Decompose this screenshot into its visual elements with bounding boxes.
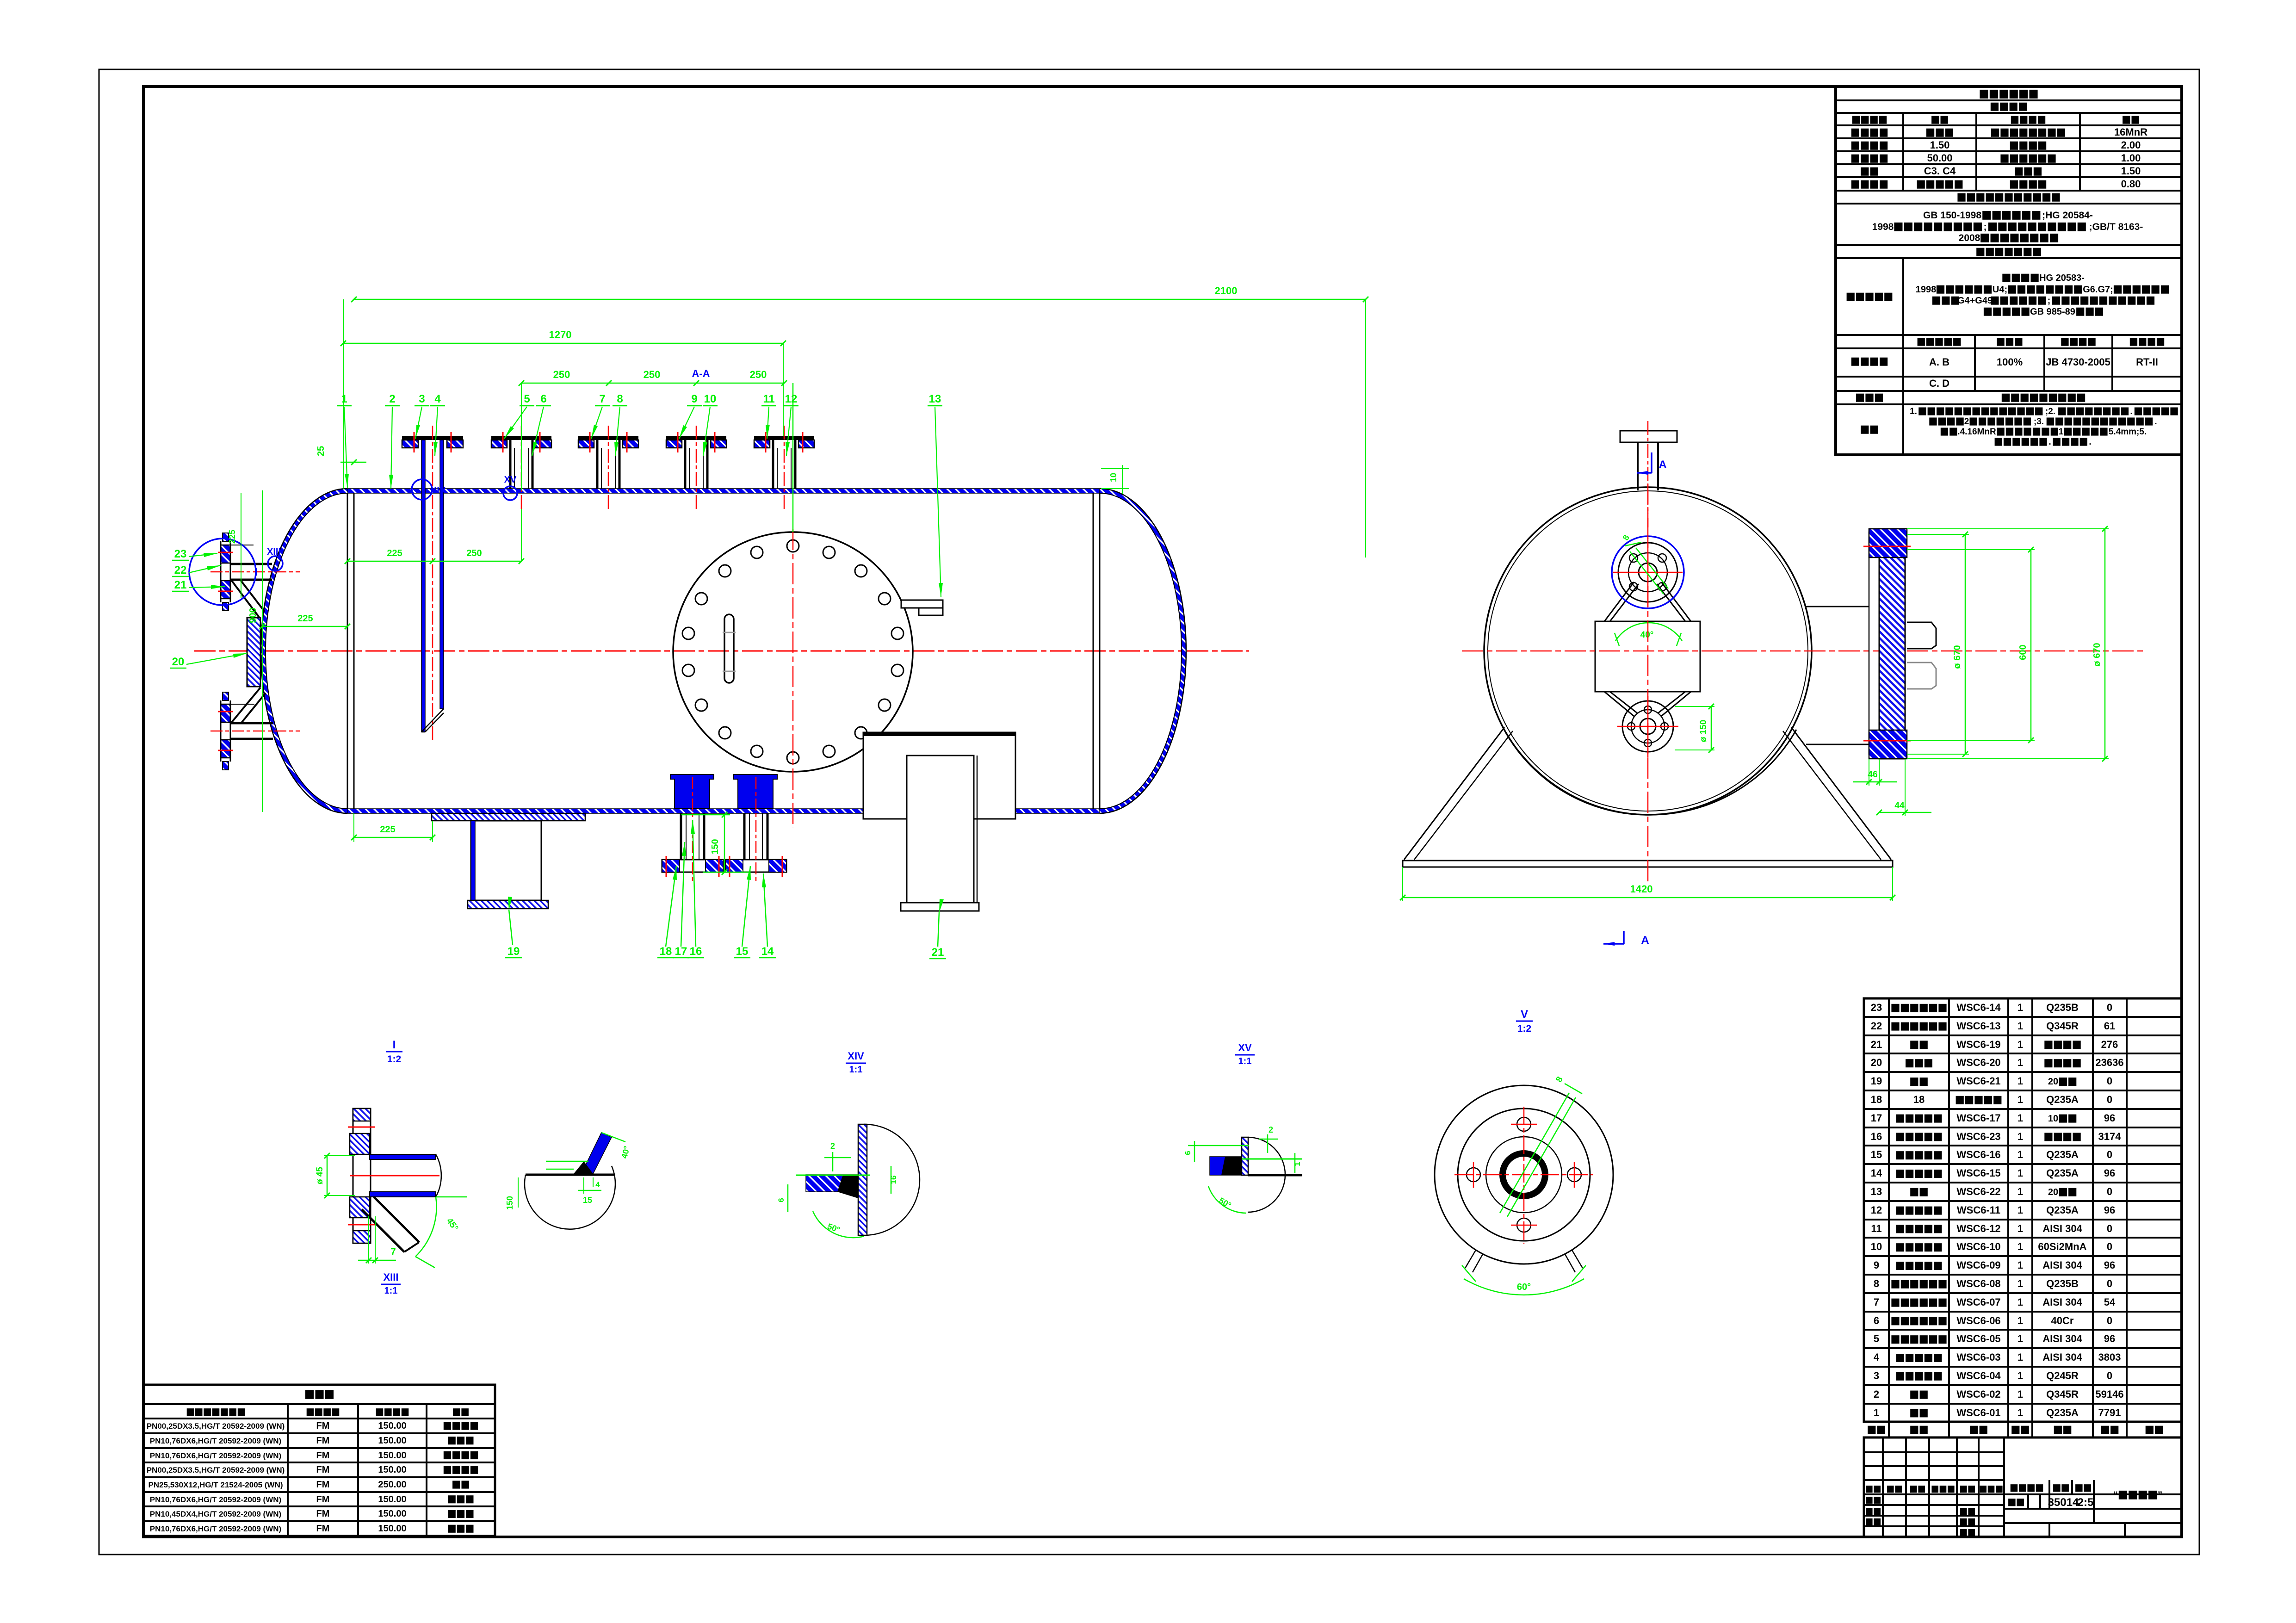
svg-text:0: 0 bbox=[2107, 1149, 2112, 1160]
lower gusset bbox=[231, 688, 260, 723]
svg-text:.: . bbox=[2048, 437, 2051, 447]
svg-text:150.00: 150.00 bbox=[378, 1436, 406, 1446]
bottom flange bbox=[725, 860, 786, 872]
gasket lines bbox=[414, 432, 415, 452]
svg-text:1: 1 bbox=[2018, 1315, 2023, 1326]
right support leg bbox=[907, 756, 974, 903]
svg-text:1: 1 bbox=[2018, 1112, 2023, 1124]
manhole cover gasket bbox=[1869, 532, 1879, 754]
cover bottom block bbox=[1869, 730, 1907, 759]
dim 150 between bottom nozzles bbox=[724, 815, 725, 872]
head nozzle at y=1580 flange plate bbox=[221, 704, 230, 722]
svg-text:2:5: 2:5 bbox=[2078, 1496, 2094, 1509]
svg-text:22: 22 bbox=[1871, 1020, 1882, 1032]
svg-text:PN10,76DX6,HG/T 20592-2009 (WN: PN10,76DX6,HG/T 20592-2009 (WN) bbox=[150, 1437, 281, 1445]
svg-text:WSC6-19: WSC6-19 bbox=[1956, 1039, 2000, 1050]
svg-text:I: I bbox=[393, 1039, 396, 1051]
head nozzle gasket marks bbox=[218, 711, 233, 712]
label 19 leader bbox=[509, 910, 513, 945]
svg-text:0: 0 bbox=[2107, 1186, 2112, 1197]
head nozzle gasket marks bbox=[218, 552, 233, 553]
svg-text:WSC6-01: WSC6-01 bbox=[1956, 1407, 2000, 1419]
svg-text:19: 19 bbox=[507, 945, 520, 958]
svg-text:2: 2 bbox=[1269, 1125, 1273, 1134]
svg-text:.: . bbox=[2089, 437, 2091, 447]
svg-text:FM: FM bbox=[316, 1480, 330, 1490]
head nozzle centerline bbox=[210, 731, 300, 732]
svg-text:14: 14 bbox=[761, 945, 774, 958]
svg-text:150.00: 150.00 bbox=[378, 1509, 406, 1519]
svg-text:HG 20583-: HG 20583- bbox=[2039, 273, 2085, 283]
standards section title bbox=[1957, 193, 2060, 202]
weld detail XV bbox=[1248, 1137, 1285, 1212]
dim 2100 bbox=[354, 299, 1366, 300]
detail XIII gusset bbox=[374, 1197, 419, 1242]
svg-text:7: 7 bbox=[1874, 1296, 1879, 1308]
head nozzle centerline bbox=[210, 571, 300, 573]
svg-text:WSC6-12: WSC6-12 bbox=[1956, 1223, 2000, 1234]
dim 225/250 inside vessel bbox=[347, 561, 521, 562]
svg-text:23636: 23636 bbox=[2095, 1057, 2123, 1068]
svg-text:FM: FM bbox=[316, 1524, 330, 1534]
svg-text:150.00: 150.00 bbox=[378, 1465, 406, 1475]
svg-text:1: 1 bbox=[2018, 1407, 2023, 1419]
svg-text:1.50: 1.50 bbox=[1930, 139, 1950, 151]
svg-text:;HG 20584-: ;HG 20584- bbox=[2042, 210, 2093, 221]
svg-text:12: 12 bbox=[785, 393, 798, 405]
svg-text:“: “ bbox=[2113, 1490, 2118, 1500]
design table data rows bbox=[1851, 129, 1888, 137]
standards text block bbox=[1923, 210, 2093, 221]
svg-text:18: 18 bbox=[660, 945, 672, 958]
svg-text:RT-II: RT-II bbox=[2136, 356, 2158, 368]
left leg bbox=[471, 821, 541, 900]
nozzle centerline bbox=[521, 426, 522, 509]
manhole cover circle bbox=[673, 532, 913, 772]
svg-text:WSC6-08: WSC6-08 bbox=[1956, 1278, 2000, 1289]
bottom flange red cross bbox=[1617, 726, 1678, 727]
BOM header row bbox=[1864, 1421, 2182, 1423]
end view centerlines bbox=[1462, 650, 2147, 652]
svg-text:WSC6-05: WSC6-05 bbox=[1956, 1333, 2000, 1344]
left small dim 225 bbox=[241, 493, 241, 598]
svg-text:1: 1 bbox=[2018, 1020, 2023, 1032]
dim 250 x3 bbox=[521, 383, 784, 384]
svg-text:15: 15 bbox=[583, 1196, 592, 1205]
svg-text:A: A bbox=[1641, 934, 1649, 947]
XIV weld wedge bbox=[806, 1175, 858, 1192]
svg-text:V: V bbox=[1521, 1008, 1528, 1021]
svg-text:1: 1 bbox=[2018, 1057, 2023, 1068]
svg-text:21: 21 bbox=[1871, 1039, 1882, 1050]
svg-text:3: 3 bbox=[1874, 1370, 1879, 1381]
section arrow A bottom bbox=[1623, 931, 1625, 944]
svg-text:WSC6-06: WSC6-06 bbox=[1956, 1315, 2000, 1326]
bottom nozzle at x=1634 bbox=[743, 813, 746, 860]
svg-text:U4;: U4; bbox=[1993, 285, 2007, 295]
svg-text:21: 21 bbox=[932, 946, 944, 959]
svg-text:1:1: 1:1 bbox=[849, 1065, 863, 1075]
svg-text:96: 96 bbox=[2104, 1204, 2115, 1216]
svg-text:1.50: 1.50 bbox=[2121, 165, 2141, 177]
svg-text:WSC6-10: WSC6-10 bbox=[1956, 1241, 2000, 1252]
heat treatment row bbox=[1856, 394, 1883, 402]
nozzle centerline bbox=[696, 426, 697, 509]
svg-text:Q245R: Q245R bbox=[2046, 1370, 2079, 1381]
dim phi670 inner bbox=[1965, 534, 1966, 754]
svg-text:C. D: C. D bbox=[1929, 378, 1949, 389]
svg-text:11: 11 bbox=[763, 393, 774, 405]
svg-text:16MnR: 16MnR bbox=[2114, 126, 2147, 138]
head nozzle pipe bbox=[230, 563, 272, 565]
svg-text:Q235A: Q235A bbox=[2046, 1204, 2079, 1216]
dim 1270 bbox=[343, 343, 783, 344]
left leg reinforcement pad bbox=[432, 813, 585, 821]
svg-text:FM: FM bbox=[316, 1494, 330, 1505]
svg-text:150.00: 150.00 bbox=[378, 1421, 406, 1431]
end view internal box bbox=[1595, 621, 1700, 692]
design table title row bbox=[1980, 90, 2037, 99]
svg-text:17: 17 bbox=[1871, 1112, 1882, 1124]
nozzle schedule table bbox=[144, 1385, 495, 1536]
svg-text:1: 1 bbox=[2018, 1039, 2023, 1050]
svg-text:;: ; bbox=[1984, 222, 1987, 232]
dim phi150 bottom flange bbox=[1711, 706, 1712, 750]
svg-text:1: 1 bbox=[2059, 427, 2064, 437]
svg-text:C3. C4: C3. C4 bbox=[1924, 165, 1956, 177]
end view saddle seat arc bbox=[1503, 728, 1796, 815]
svg-text:21: 21 bbox=[174, 579, 187, 591]
svg-text:GB 985-89: GB 985-89 bbox=[2030, 307, 2075, 317]
svg-text:Q235A: Q235A bbox=[2046, 1149, 2079, 1160]
svg-text:150.00: 150.00 bbox=[378, 1450, 406, 1461]
svg-text:ø 670: ø 670 bbox=[1952, 645, 1962, 669]
detail V green slash bbox=[1500, 1093, 1569, 1213]
saddle left slant bbox=[1404, 727, 1504, 860]
svg-text:7: 7 bbox=[390, 1247, 396, 1257]
dim 46 bbox=[1853, 781, 1897, 783]
struts to top flange bbox=[1604, 582, 1634, 621]
svg-text:60°: 60° bbox=[1517, 1282, 1531, 1292]
level gauge slot bbox=[724, 614, 734, 683]
svg-text:3: 3 bbox=[419, 393, 425, 405]
svg-text:FM: FM bbox=[316, 1421, 330, 1431]
svg-text:WSC6-14: WSC6-14 bbox=[1956, 1002, 2001, 1013]
svg-text:2: 2 bbox=[1964, 417, 1969, 427]
item leader lines bbox=[344, 407, 347, 488]
svg-text:2: 2 bbox=[830, 1141, 835, 1151]
weld joint type row bbox=[1847, 293, 1893, 301]
manhole section extension line bbox=[792, 383, 794, 532]
svg-text:WSC6-03: WSC6-03 bbox=[1956, 1351, 2000, 1363]
svg-text:PN10,76DX6,HG/T 20592-2009 (WN: PN10,76DX6,HG/T 20592-2009 (WN) bbox=[150, 1524, 281, 1533]
svg-text:1: 1 bbox=[341, 393, 347, 405]
svg-text:1: 1 bbox=[2018, 1204, 2023, 1216]
svg-text:XIII: XIII bbox=[383, 1271, 398, 1283]
svg-text:150.00: 150.00 bbox=[378, 1524, 406, 1534]
left tangent weld seam lines bbox=[347, 493, 348, 809]
svg-text:WSC6-02: WSC6-02 bbox=[1956, 1388, 2000, 1400]
right tangent weld seam lines bbox=[1099, 493, 1101, 809]
bottom nozzle at x=1497 bbox=[680, 813, 682, 860]
title block left labels bbox=[1866, 1486, 1881, 1493]
svg-text:0: 0 bbox=[2107, 1075, 2112, 1087]
svg-text:”: ” bbox=[2158, 1490, 2163, 1500]
svg-text:AISI 304: AISI 304 bbox=[2042, 1351, 2082, 1363]
right elliptical head bbox=[1100, 489, 1186, 813]
left elliptical head bbox=[261, 489, 347, 813]
svg-text:8: 8 bbox=[1874, 1278, 1879, 1289]
svg-text:.: . bbox=[2154, 417, 2157, 427]
nozzle pipe walls bbox=[596, 440, 599, 489]
svg-text:15: 15 bbox=[1871, 1149, 1882, 1160]
svg-text:0: 0 bbox=[2107, 1370, 2112, 1381]
svg-text:1: 1 bbox=[2018, 1388, 2023, 1400]
svg-text:40°: 40° bbox=[1640, 630, 1654, 640]
svg-text:I: I bbox=[255, 566, 258, 578]
svg-text:96: 96 bbox=[2104, 1112, 2115, 1124]
svg-text:1: 1 bbox=[2018, 1333, 2023, 1344]
svg-text:WSC6-09: WSC6-09 bbox=[1956, 1259, 2000, 1271]
svg-text:Q235A: Q235A bbox=[2046, 1167, 2079, 1179]
svg-text:1: 1 bbox=[2018, 1370, 2023, 1381]
svg-text:3174: 3174 bbox=[2098, 1131, 2122, 1142]
svg-text:1.00: 1.00 bbox=[2121, 152, 2141, 164]
manhole vertical centerline bbox=[792, 529, 794, 828]
svg-text:1:1: 1:1 bbox=[1238, 1056, 1252, 1066]
BOM parts list table bbox=[1864, 998, 2182, 1422]
svg-text:23: 23 bbox=[174, 548, 187, 560]
svg-text:;GB/T 8163-: ;GB/T 8163- bbox=[2089, 222, 2143, 232]
section arrow A top bbox=[1651, 452, 1652, 473]
detail circle XV bbox=[503, 486, 517, 500]
svg-text:WSC6-15: WSC6-15 bbox=[1956, 1167, 2000, 1179]
bottom nozzle centerline bbox=[755, 777, 757, 881]
svg-text:1270: 1270 bbox=[549, 329, 572, 341]
svg-text:10: 10 bbox=[1871, 1241, 1882, 1252]
dim 1420 bbox=[1403, 897, 1893, 898]
nozzle pipe walls bbox=[509, 440, 512, 489]
svg-text:2.00: 2.00 bbox=[2121, 139, 2141, 151]
detail XIII dims bbox=[327, 1156, 328, 1196]
svg-text:16: 16 bbox=[1871, 1131, 1882, 1142]
svg-text:20: 20 bbox=[2048, 1187, 2058, 1197]
dim phi670 outer bbox=[2104, 529, 2106, 759]
svg-text:20: 20 bbox=[2048, 1077, 2058, 1087]
svg-text:900: 900 bbox=[248, 607, 258, 623]
svg-text:ø 45: ø 45 bbox=[315, 1167, 325, 1184]
svg-text:;3.: ;3. bbox=[2034, 417, 2044, 427]
svg-text:FM: FM bbox=[316, 1450, 330, 1461]
svg-text:23: 23 bbox=[1871, 1002, 1882, 1013]
svg-text:13: 13 bbox=[1871, 1186, 1882, 1197]
cover red gasket marks bbox=[1863, 546, 1911, 547]
svg-text:20: 20 bbox=[1871, 1057, 1882, 1068]
svg-text:FM: FM bbox=[316, 1436, 330, 1446]
gasket lines bbox=[502, 432, 504, 452]
manhole bolt holes bbox=[787, 540, 799, 552]
dip tube bevel end bbox=[421, 709, 444, 732]
cover top block bbox=[1869, 529, 1907, 558]
svg-text:18: 18 bbox=[1871, 1094, 1882, 1105]
nozzle centerline bbox=[432, 426, 433, 740]
detail XIII flange plate bbox=[353, 1109, 371, 1243]
title block bbox=[1864, 1437, 2182, 1537]
svg-text:276: 276 bbox=[2101, 1039, 2118, 1050]
svg-text:A. B: A. B bbox=[1929, 356, 1949, 368]
svg-text:250.00: 250.00 bbox=[378, 1480, 406, 1490]
manhole cover plate bbox=[1879, 529, 1905, 759]
svg-text:50.00: 50.00 bbox=[1927, 152, 1952, 164]
detail V leg stubs bbox=[1465, 1250, 1476, 1268]
svg-text:WSC6-04: WSC6-04 bbox=[1956, 1370, 2001, 1381]
design table header bbox=[1852, 116, 1887, 124]
dim 225 bottom bbox=[354, 837, 433, 838]
svg-text:WSC6-23: WSC6-23 bbox=[1956, 1131, 2000, 1142]
vessel shell bottom wall right segment bbox=[1015, 809, 1100, 813]
svg-text:5: 5 bbox=[524, 393, 530, 405]
svg-text:16: 16 bbox=[690, 945, 702, 958]
svg-text:150: 150 bbox=[710, 839, 720, 854]
svg-text:XV: XV bbox=[1238, 1042, 1252, 1053]
svg-text:Q235A: Q235A bbox=[2046, 1407, 2079, 1419]
svg-text:16: 16 bbox=[889, 1176, 898, 1184]
svg-text:5.4mm;5.: 5.4mm;5. bbox=[2109, 427, 2147, 437]
svg-text:44: 44 bbox=[1894, 801, 1905, 811]
detail circle blue top flange bbox=[1612, 536, 1684, 608]
nozzle pipe walls bbox=[684, 440, 687, 489]
svg-text:250: 250 bbox=[466, 548, 482, 558]
svg-text:1: 1 bbox=[2018, 1351, 2023, 1363]
svg-text:22: 22 bbox=[174, 564, 187, 576]
svg-text:1.: 1. bbox=[1910, 407, 1917, 416]
svg-text:WSC6-07: WSC6-07 bbox=[1956, 1296, 2000, 1308]
svg-text:ø 150: ø 150 bbox=[1699, 720, 1708, 743]
bottom nozzle centerline bbox=[692, 777, 693, 881]
svg-text:9: 9 bbox=[691, 393, 697, 405]
svg-text:225: 225 bbox=[387, 548, 402, 558]
detail XIII pipe bbox=[370, 1154, 436, 1159]
other requirements row bbox=[1861, 426, 1878, 434]
detail V flange face bbox=[1435, 1085, 1613, 1264]
nozzle centerline bbox=[608, 426, 609, 509]
svg-text:9: 9 bbox=[1874, 1259, 1879, 1271]
head nozzle pipe bbox=[230, 722, 273, 725]
XIV dims bbox=[832, 1152, 834, 1171]
svg-text:59146: 59146 bbox=[2095, 1388, 2123, 1400]
svg-text:1: 1 bbox=[2018, 1186, 2023, 1197]
svg-text:1: 1 bbox=[2018, 1094, 2023, 1105]
svg-text:PN10,76DX6,HG/T 20592-2009 (WN: PN10,76DX6,HG/T 20592-2009 (WN) bbox=[150, 1451, 281, 1460]
svg-text:0: 0 bbox=[2107, 1278, 2112, 1289]
dip tube walls bbox=[421, 440, 425, 732]
svg-text:225: 225 bbox=[228, 530, 237, 544]
svg-text:1998: 1998 bbox=[1916, 285, 1937, 295]
svg-text:WSC6-11: WSC6-11 bbox=[1957, 1204, 2000, 1216]
top flange red cross bbox=[1613, 572, 1683, 573]
svg-text:WSC6-17: WSC6-17 bbox=[1956, 1112, 2000, 1124]
svg-text:6: 6 bbox=[777, 1198, 786, 1202]
svg-text:1: 1 bbox=[2018, 1278, 2023, 1289]
svg-text:6: 6 bbox=[1874, 1315, 1879, 1326]
svg-text:PN10,76DX6,HG/T 20592-2009 (WN: PN10,76DX6,HG/T 20592-2009 (WN) bbox=[150, 1495, 281, 1504]
svg-text:4: 4 bbox=[434, 393, 441, 405]
upper gusset bbox=[231, 580, 259, 617]
svg-text:10: 10 bbox=[704, 393, 717, 405]
svg-text:FM: FM bbox=[316, 1509, 330, 1519]
dim 225 head depth bbox=[262, 626, 347, 627]
svg-text:Q235B: Q235B bbox=[2046, 1278, 2079, 1289]
svg-text:5: 5 bbox=[1874, 1333, 1879, 1344]
svg-text:96: 96 bbox=[2104, 1167, 2115, 1179]
svg-text:WSC6-13: WSC6-13 bbox=[1956, 1020, 2000, 1032]
gasket lines bbox=[589, 432, 591, 452]
green leader on top flange bbox=[1630, 551, 1664, 594]
svg-text:WSC6-22: WSC6-22 bbox=[1956, 1186, 2000, 1197]
dim 44 bbox=[1879, 812, 1931, 813]
svg-text:2100: 2100 bbox=[1215, 285, 1238, 297]
svg-text:.4.16MnR: .4.16MnR bbox=[1957, 427, 1996, 437]
svg-text:XV: XV bbox=[504, 475, 517, 485]
nozzle pipe walls bbox=[772, 440, 774, 489]
struts to bottom flange bbox=[1604, 692, 1634, 716]
svg-text:4: 4 bbox=[595, 1180, 600, 1189]
svg-text:40Cr: 40Cr bbox=[2051, 1315, 2074, 1326]
svg-text:1:2: 1:2 bbox=[387, 1054, 401, 1065]
svg-text:1:1: 1:1 bbox=[384, 1286, 398, 1296]
svg-text:150.00: 150.00 bbox=[378, 1494, 406, 1505]
svg-text:PN10,45DX4,HG/T 20592-2009 (WN: PN10,45DX4,HG/T 20592-2009 (WN) bbox=[150, 1510, 281, 1518]
svg-text:46: 46 bbox=[1868, 770, 1877, 780]
svg-text:G4+G49: G4+G49 bbox=[1957, 296, 1993, 306]
svg-text:Q235A: Q235A bbox=[2046, 1094, 2079, 1105]
gasket lines bbox=[765, 432, 767, 452]
svg-text:250: 250 bbox=[750, 369, 767, 380]
svg-text:AISI 304: AISI 304 bbox=[2042, 1223, 2082, 1234]
svg-text:25: 25 bbox=[316, 446, 326, 456]
svg-text:PN00,25DX3.5,HG/T 20592-2009 (: PN00,25DX3.5,HG/T 20592-2009 (WN) bbox=[147, 1422, 285, 1431]
svg-text:10: 10 bbox=[1109, 473, 1118, 482]
svg-text:AISI 304: AISI 304 bbox=[2042, 1333, 2082, 1344]
title block right part bbox=[2004, 1493, 2182, 1495]
svg-text:14: 14 bbox=[1871, 1167, 1882, 1179]
svg-text:1: 1 bbox=[2018, 1223, 2023, 1234]
top nozzle at x=935 flange bbox=[402, 436, 463, 440]
svg-text:11: 11 bbox=[1871, 1223, 1881, 1234]
top nozzle at x=1505 flange bbox=[666, 436, 726, 440]
gasket lines bbox=[677, 432, 679, 452]
right support base plate bbox=[901, 903, 979, 911]
svg-text:AISI 304: AISI 304 bbox=[2042, 1259, 2082, 1271]
sheet inner border frame bbox=[143, 87, 2182, 1537]
svg-text:6: 6 bbox=[1183, 1151, 1192, 1155]
svg-text:;2.: ;2. bbox=[2045, 407, 2055, 416]
svg-text:1: 1 bbox=[2018, 1241, 2023, 1252]
svg-text:8: 8 bbox=[617, 393, 623, 405]
bottom internal flange bbox=[1622, 701, 1673, 752]
svg-text:15: 15 bbox=[736, 945, 749, 958]
svg-text:1998: 1998 bbox=[1872, 222, 1894, 232]
svg-text:JB 4730-2005: JB 4730-2005 bbox=[2046, 356, 2110, 368]
svg-text:AISI 304: AISI 304 bbox=[2042, 1296, 2082, 1308]
svg-text:WSC6-16: WSC6-16 bbox=[1956, 1149, 2000, 1160]
svg-text:1: 1 bbox=[2018, 1002, 2023, 1013]
svg-text:1: 1 bbox=[2018, 1131, 2023, 1142]
weld detail D1 bbox=[525, 1166, 615, 1229]
svg-text:35014: 35014 bbox=[2048, 1496, 2079, 1509]
svg-text:1: 1 bbox=[1293, 1162, 1302, 1166]
svg-text:1: 1 bbox=[2018, 1167, 2023, 1179]
